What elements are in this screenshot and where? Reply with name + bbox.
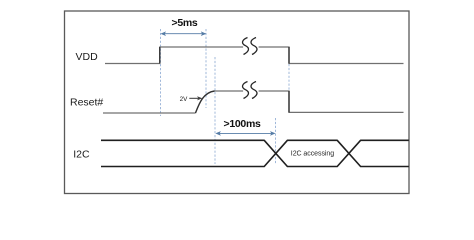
I2C bus wire A (top-bottom-top) xyxy=(101,140,409,166)
dashed guide t1 (reset release, x=206) xyxy=(205,29,207,108)
break symbol Reset# xyxy=(243,82,257,99)
Reset# waveform wire (high after break, fall, low to end) xyxy=(259,91,404,112)
svg-text:2V: 2V xyxy=(180,96,189,103)
VDD waveform wire (low, rise, high to break) xyxy=(105,47,243,64)
svg-text:Reset#: Reset# xyxy=(70,96,103,108)
frame border xyxy=(65,11,410,194)
svg-text:>100ms: >100ms xyxy=(224,118,261,130)
svg-text:I2C: I2C xyxy=(73,148,90,160)
2V threshold callout xyxy=(180,96,203,103)
break symbol VDD xyxy=(243,38,257,55)
svg-text:I2C accessing: I2C accessing xyxy=(291,150,334,157)
arrow >100ms span xyxy=(215,131,275,136)
dashed guide t0 (VDD rise, x=160.5) xyxy=(160,29,162,116)
dashed guide t3 (I2C access start, x=275.5) xyxy=(275,118,277,164)
dashed guide t4 (power-down connector, x=289) xyxy=(288,64,290,90)
I2C bus wire B (bottom-top-bottom) xyxy=(101,140,409,166)
dashed guide t2 (reset high, x=215) xyxy=(214,57,216,164)
Reset# waveform wire (low, S-curve rise, high to break) xyxy=(103,91,243,113)
arrow >5ms span xyxy=(160,31,206,36)
svg-text:>5ms: >5ms xyxy=(172,17,198,29)
VDD waveform wire (high after break, fall, low to end) xyxy=(259,47,404,64)
svg-text:VDD: VDD xyxy=(76,51,99,63)
